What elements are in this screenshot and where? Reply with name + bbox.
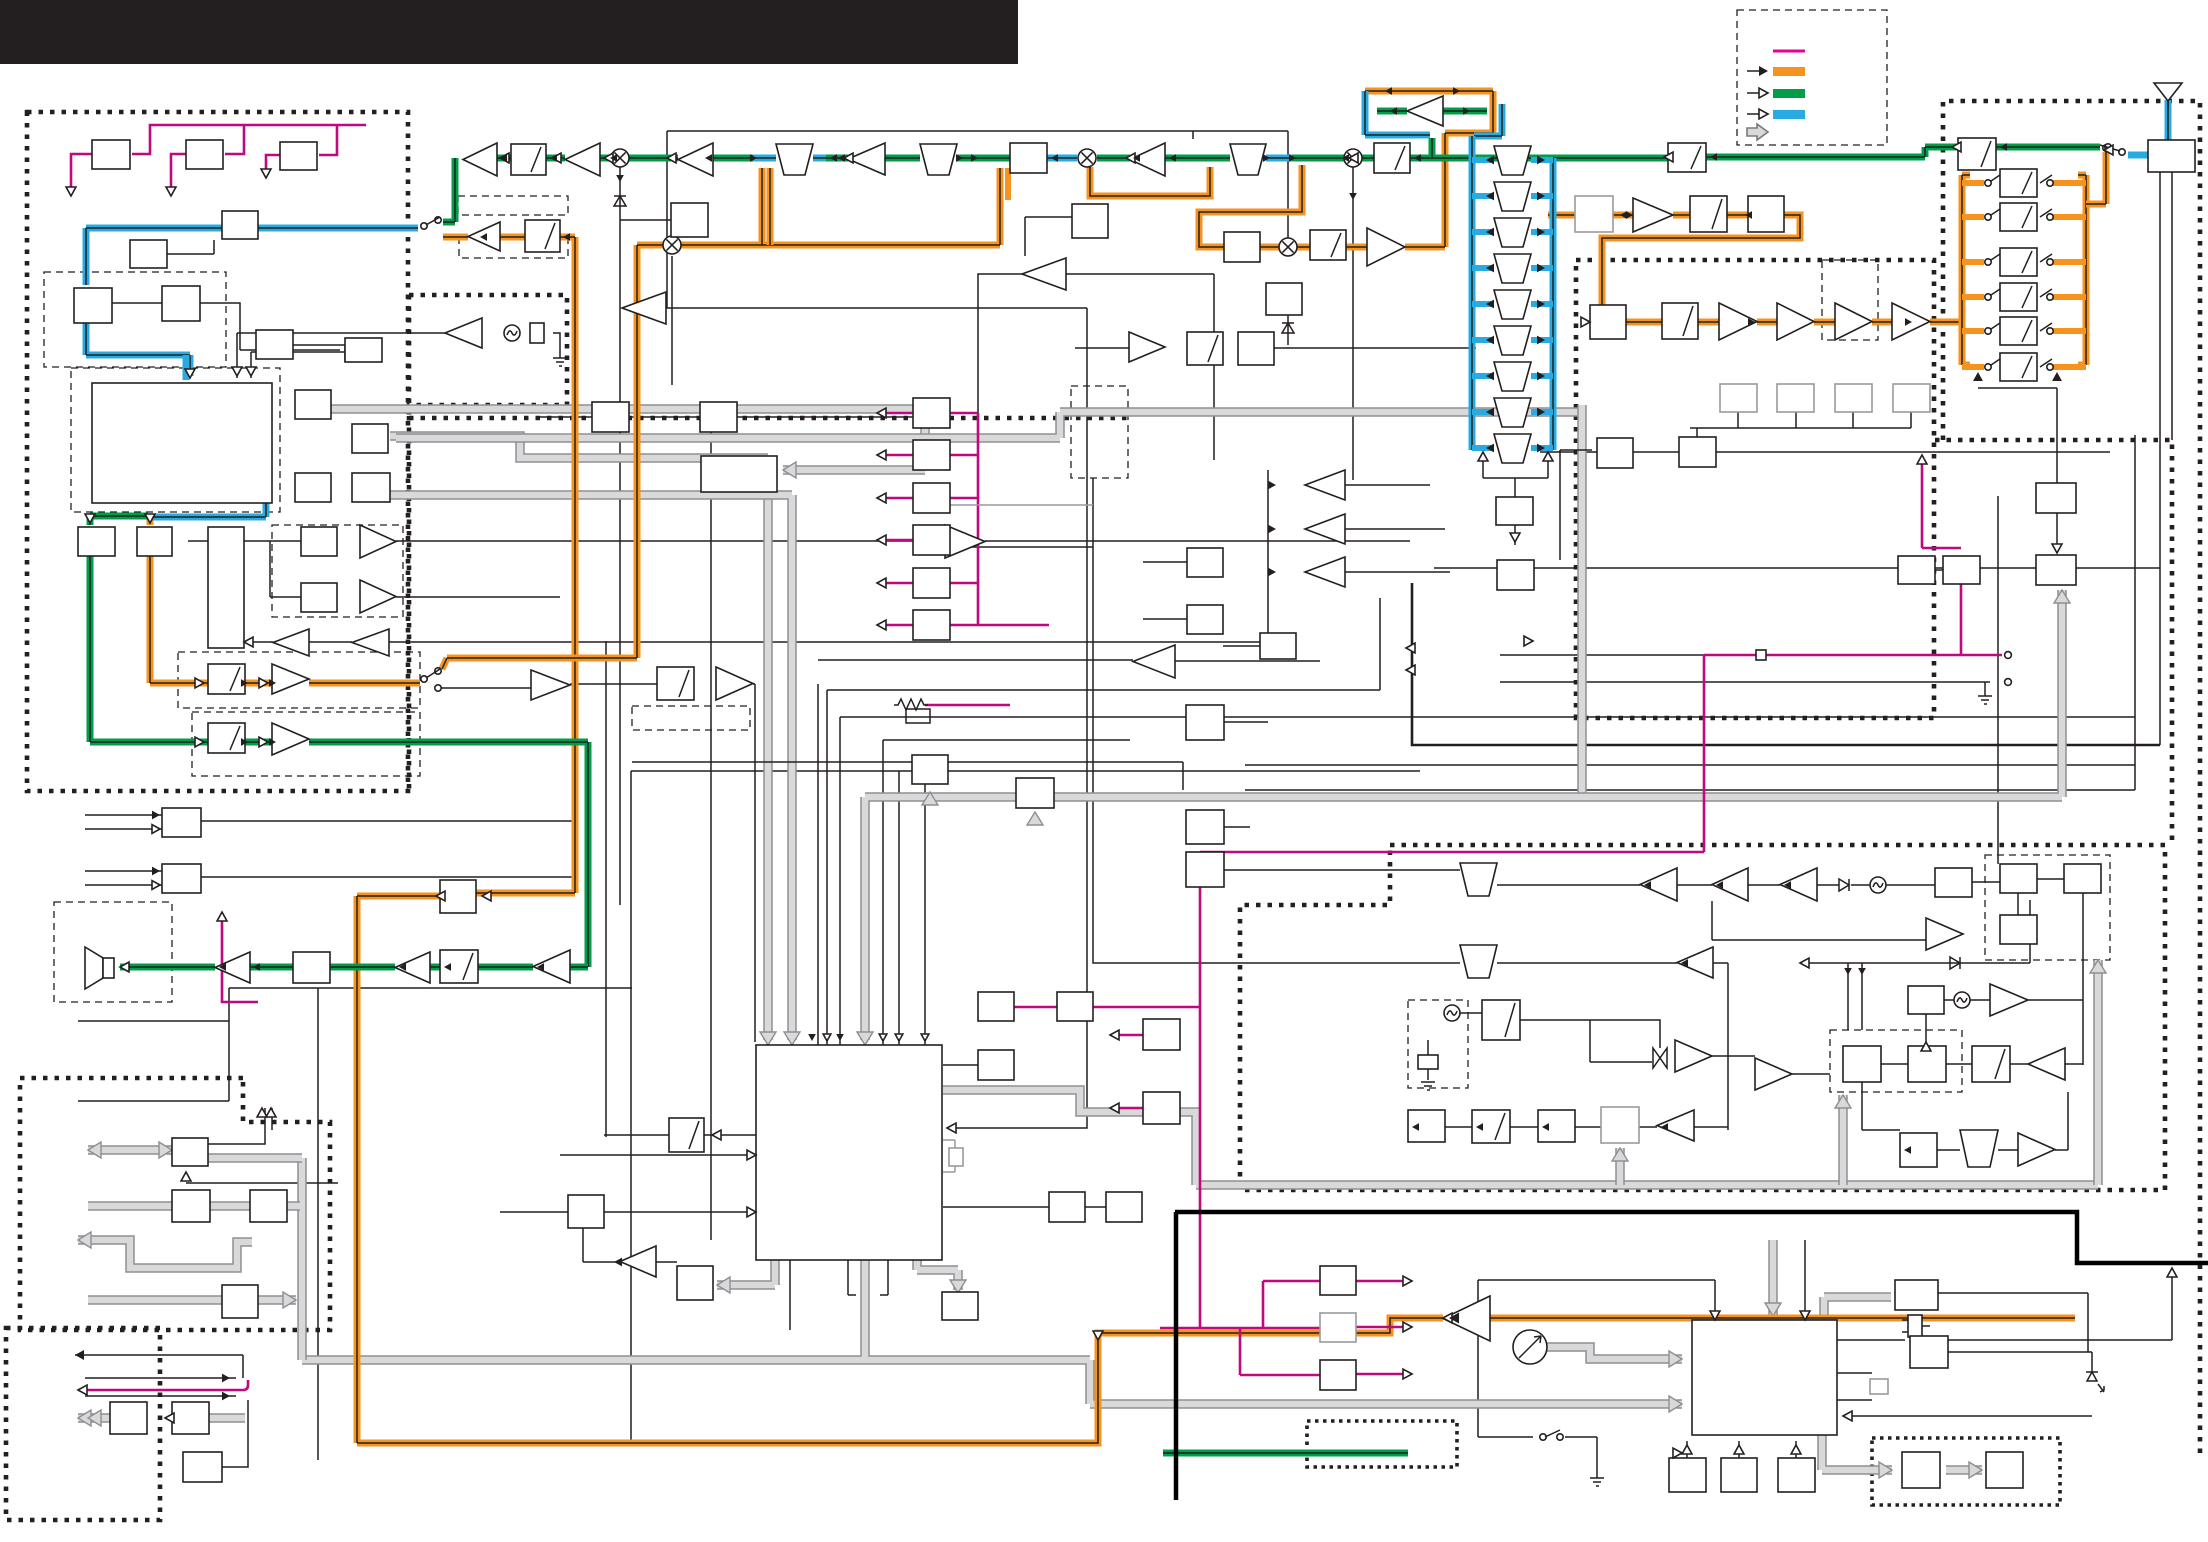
arrow xyxy=(1905,318,1912,326)
amp xyxy=(1892,303,1930,340)
title banner xyxy=(0,0,1018,64)
box xyxy=(1669,1458,1706,1492)
orange stub xyxy=(2053,180,2086,186)
wire xyxy=(2082,893,2084,1065)
green main xyxy=(1097,138,1668,158)
legend blue bar xyxy=(1773,110,1805,119)
bus arrow xyxy=(78,1410,91,1426)
level box xyxy=(1893,384,1930,412)
arrow xyxy=(1800,958,1809,968)
wire xyxy=(317,988,319,1460)
detector box xyxy=(511,144,546,175)
orange wire xyxy=(681,168,1000,245)
arrow xyxy=(1581,317,1590,327)
wire xyxy=(222,1400,248,1467)
bus out xyxy=(88,1145,172,1155)
vco box xyxy=(1482,1000,1520,1040)
amp xyxy=(716,667,753,700)
arrow xyxy=(241,738,248,746)
led xyxy=(2086,1372,2104,1392)
diode xyxy=(614,196,626,206)
bus xyxy=(1577,405,1587,797)
wire xyxy=(818,660,1133,1045)
wire xyxy=(1978,388,2057,553)
if filter xyxy=(1494,326,1531,355)
arrow xyxy=(823,1034,831,1041)
magenta wire xyxy=(1704,459,2002,655)
box xyxy=(2036,483,2076,513)
bus arrow xyxy=(784,1032,800,1045)
arrow xyxy=(500,154,507,162)
arrow xyxy=(480,233,487,241)
orange stub xyxy=(2053,364,2086,370)
arrow xyxy=(166,187,176,196)
arrow xyxy=(1858,968,1866,975)
wire xyxy=(1565,1437,1597,1478)
wire xyxy=(1497,962,1728,964)
tuner pack dashed box xyxy=(44,272,226,367)
arrow xyxy=(1268,525,1276,534)
wire xyxy=(1926,1000,2083,1046)
blue stub xyxy=(1472,229,1494,235)
if block xyxy=(701,456,777,492)
arrow xyxy=(399,963,406,971)
bus to ic xyxy=(390,495,792,1040)
mixer xyxy=(1078,149,1096,167)
wire xyxy=(789,1260,791,1330)
level box xyxy=(1777,384,1814,412)
arrow xyxy=(195,737,204,747)
tuner dotted box xyxy=(1240,845,2165,1190)
reg box xyxy=(1320,1360,1356,1390)
bus xyxy=(1946,1465,1982,1475)
contact xyxy=(2047,180,2053,186)
arrow xyxy=(1542,1123,1549,1131)
att box xyxy=(2000,283,2037,311)
box xyxy=(256,330,293,359)
box xyxy=(1935,868,1972,897)
green out dotted box xyxy=(1307,1421,1457,1467)
arrow xyxy=(1904,1146,1911,1154)
dashed box xyxy=(632,706,750,730)
box xyxy=(2036,555,2076,585)
blue stub xyxy=(1472,409,1494,415)
box xyxy=(1049,1192,1085,1222)
switch lever xyxy=(2100,145,2120,151)
gray wire xyxy=(950,504,1093,506)
bus to tuner xyxy=(943,1090,2098,1185)
switch xyxy=(1988,209,2000,217)
pll dashed box xyxy=(1985,855,2110,960)
arrow xyxy=(604,153,613,163)
contact xyxy=(435,685,441,691)
varactor xyxy=(1653,1048,1667,1068)
contact xyxy=(435,668,441,674)
arrow xyxy=(1289,154,1296,162)
control wire xyxy=(881,497,913,500)
arrow xyxy=(1349,153,1358,163)
arrow xyxy=(1537,228,1545,237)
agc box xyxy=(1496,497,1533,525)
output box xyxy=(913,610,950,640)
att box xyxy=(2000,169,2037,197)
bus arrow xyxy=(159,1142,172,1158)
wire xyxy=(1143,562,1187,619)
orange stub xyxy=(1962,328,1984,334)
arrow xyxy=(921,1034,929,1041)
box xyxy=(1143,1092,1180,1124)
arrow xyxy=(1537,336,1545,345)
feedback wire xyxy=(1412,583,2160,745)
amp xyxy=(1675,1040,1712,1072)
contact xyxy=(2105,144,2111,150)
arrow xyxy=(956,154,963,162)
diode xyxy=(1282,315,1294,345)
wire xyxy=(167,240,214,254)
crystal xyxy=(1870,1379,1888,1394)
orange stub xyxy=(1962,259,1984,265)
wire xyxy=(1948,1272,2172,1340)
blue stub xyxy=(183,355,190,380)
wire xyxy=(840,568,2160,1045)
box xyxy=(250,1190,287,1222)
switch xyxy=(2040,323,2052,331)
arrow xyxy=(1390,107,1397,115)
speed sensor xyxy=(1513,1330,1547,1364)
magenta wire xyxy=(925,704,1010,707)
arrow xyxy=(1486,228,1494,237)
arrow xyxy=(1476,1123,1483,1131)
box xyxy=(1900,1133,1937,1167)
d/a box xyxy=(440,950,478,983)
orange stub xyxy=(2053,214,2086,220)
output box xyxy=(913,525,950,555)
control wire xyxy=(881,582,913,585)
arrow xyxy=(1973,372,1983,381)
box xyxy=(1497,560,1534,590)
dac dashed box xyxy=(178,652,420,708)
box xyxy=(1601,1107,1639,1143)
orange stub xyxy=(2053,259,2086,265)
wire xyxy=(1694,963,1728,1130)
arrow xyxy=(152,867,160,876)
contact xyxy=(1540,1434,1546,1440)
wire xyxy=(943,1064,978,1066)
wire xyxy=(848,1260,888,1295)
arrow xyxy=(1716,881,1723,889)
orange loop xyxy=(1090,167,1210,196)
bus arrow xyxy=(88,1142,101,1158)
box xyxy=(295,473,331,502)
bus arrow xyxy=(2054,590,2070,603)
arrow xyxy=(1537,300,1545,309)
box xyxy=(1057,992,1093,1021)
wire xyxy=(1937,1092,2068,1150)
orange stub xyxy=(2053,328,2086,334)
control wire xyxy=(881,412,913,415)
box xyxy=(352,473,390,502)
box xyxy=(1972,1046,2010,1082)
wire xyxy=(604,1134,756,1136)
box xyxy=(657,667,694,700)
if filter xyxy=(1494,290,1531,319)
arrow xyxy=(552,153,561,163)
green main xyxy=(497,155,753,162)
arrow xyxy=(152,811,160,820)
switch lever xyxy=(426,669,440,678)
arrow xyxy=(1486,336,1494,345)
arrow xyxy=(563,233,570,241)
bus arrow xyxy=(1669,1351,1682,1367)
green wire xyxy=(90,556,588,967)
box xyxy=(1721,1458,1757,1492)
bus xyxy=(208,1153,302,1163)
arrow xyxy=(1110,1030,1119,1040)
eeprom box xyxy=(978,992,1014,1021)
orange wire xyxy=(150,556,272,683)
blue wire xyxy=(1365,91,1502,136)
diode xyxy=(1950,957,1960,969)
arrow xyxy=(482,891,491,901)
filter xyxy=(920,144,957,175)
orange trunk xyxy=(357,896,2075,1443)
wire xyxy=(1881,1063,2083,1065)
audio out dotted box xyxy=(20,1078,330,1330)
control wire xyxy=(950,624,978,627)
amp xyxy=(1719,303,1757,340)
att box xyxy=(2000,203,2037,231)
control wire xyxy=(881,539,913,542)
power amp xyxy=(215,952,250,983)
wire xyxy=(2159,172,2161,745)
bus xyxy=(717,1260,775,1285)
amp xyxy=(848,143,885,175)
box xyxy=(671,203,708,237)
box xyxy=(1778,1458,1815,1492)
blue stub xyxy=(1472,301,1494,307)
magenta wire xyxy=(78,1380,248,1390)
reg box xyxy=(1320,1313,1356,1342)
wire xyxy=(293,345,345,362)
blue stub xyxy=(1472,373,1494,379)
arrow xyxy=(1748,318,1755,326)
box xyxy=(1662,303,1698,339)
contact xyxy=(2047,328,2053,334)
wire xyxy=(244,641,352,643)
switch xyxy=(2040,175,2052,183)
arrow xyxy=(244,637,253,647)
wire xyxy=(1712,901,1926,940)
arrow xyxy=(1478,452,1488,461)
arrow xyxy=(2052,372,2062,381)
arrow xyxy=(550,154,557,162)
arrow xyxy=(185,369,195,378)
blue stub xyxy=(1531,337,1553,343)
arrow xyxy=(971,154,978,162)
contact xyxy=(2047,364,2053,370)
box xyxy=(669,1118,704,1152)
orange stub xyxy=(147,517,154,525)
wire xyxy=(1843,1415,2092,1417)
arrow xyxy=(1543,452,1553,461)
arrow xyxy=(2000,143,2007,151)
blue stub xyxy=(1472,193,1494,199)
amp xyxy=(1633,198,1673,232)
arrow xyxy=(85,514,95,523)
arrow xyxy=(1661,1123,1668,1131)
switch lever xyxy=(426,217,440,225)
box xyxy=(172,1402,209,1434)
bus arrow xyxy=(2090,960,2106,973)
bus xyxy=(2093,960,2103,1185)
filter xyxy=(1230,144,1266,175)
arrow xyxy=(836,1034,844,1041)
magenta out xyxy=(1356,1281,1408,1374)
wire xyxy=(1224,722,1460,870)
amp xyxy=(1022,258,1066,290)
crystal xyxy=(530,323,544,343)
level box xyxy=(1720,384,1757,412)
orange if wire xyxy=(1260,91,1493,247)
amp xyxy=(272,723,309,755)
mixer xyxy=(1344,149,1362,167)
wire xyxy=(560,1154,756,1156)
memory box xyxy=(280,142,317,170)
standby amp xyxy=(1443,1296,1490,1341)
wire xyxy=(1352,167,1354,480)
pll box xyxy=(1908,1046,1946,1082)
arrow xyxy=(269,679,276,687)
box xyxy=(942,1292,978,1320)
mute box xyxy=(440,880,476,913)
arrow xyxy=(1537,264,1545,273)
box xyxy=(700,402,737,432)
bus xyxy=(297,1158,307,1360)
arrow xyxy=(66,187,76,196)
arrow xyxy=(266,1108,276,1117)
filter xyxy=(1960,1130,1998,1167)
arrow xyxy=(1349,193,1357,200)
arrow xyxy=(1759,66,1768,76)
bus xyxy=(331,409,925,470)
wire xyxy=(2171,172,2173,440)
box xyxy=(1943,556,1980,584)
arrow xyxy=(830,154,837,162)
arrow xyxy=(269,738,276,746)
wire xyxy=(1540,451,2110,453)
wire xyxy=(1175,660,1320,662)
amp xyxy=(1130,143,1165,176)
blue ladder spine xyxy=(1472,136,1553,450)
control wire xyxy=(950,412,978,415)
wire xyxy=(950,546,1093,548)
dac box xyxy=(137,527,172,556)
am amp xyxy=(1677,947,1713,978)
wire xyxy=(244,541,301,597)
contact xyxy=(1985,214,1991,220)
arrow xyxy=(1917,455,1927,464)
arrow xyxy=(1486,372,1494,381)
arrow xyxy=(747,1207,756,1217)
box xyxy=(1010,143,1047,173)
bus return xyxy=(865,590,2062,1040)
box xyxy=(1575,196,1613,232)
bus arrow xyxy=(283,1292,296,1308)
arrow xyxy=(1664,152,1673,162)
box xyxy=(1898,556,1935,584)
contact xyxy=(1985,180,1991,186)
arrow xyxy=(614,1258,622,1267)
wire xyxy=(200,820,575,822)
switch xyxy=(2040,254,2052,262)
bus xyxy=(1838,1095,1848,1185)
box xyxy=(2064,864,2101,893)
bus to mcu xyxy=(302,1260,1682,1404)
contact xyxy=(2047,294,2053,300)
arrow xyxy=(1537,372,1545,381)
legend box xyxy=(1737,10,1887,145)
box xyxy=(1597,438,1633,468)
wire xyxy=(1804,1240,1806,1320)
orange loop xyxy=(442,245,663,669)
bus xyxy=(1768,1240,1778,1316)
wire xyxy=(396,596,560,598)
wire xyxy=(1268,470,1450,642)
arrow xyxy=(1268,481,1276,490)
bus xyxy=(78,1413,245,1423)
center dotted box xyxy=(1576,260,1934,718)
arrow xyxy=(1673,1448,1682,1458)
arrow xyxy=(877,493,886,503)
dac box xyxy=(78,527,115,556)
arrow xyxy=(1681,959,1688,967)
dashed box xyxy=(458,196,568,215)
wire xyxy=(188,540,208,542)
arrow xyxy=(1510,533,1520,542)
am amp xyxy=(468,222,500,251)
orange wire xyxy=(1199,165,1302,247)
arrow xyxy=(222,1392,230,1401)
arrow xyxy=(1843,1411,1852,1421)
am box xyxy=(525,220,560,252)
switch xyxy=(1988,323,2000,331)
panel border xyxy=(1174,1212,1179,1500)
speaker xyxy=(85,947,103,989)
arrow xyxy=(1784,881,1791,889)
amp xyxy=(395,952,430,983)
blue wire xyxy=(86,228,418,376)
system control ic xyxy=(756,1045,942,1260)
mem box xyxy=(1016,778,1054,808)
wire xyxy=(2017,893,2019,915)
box xyxy=(1895,1280,1938,1310)
bus arrow xyxy=(1612,1148,1628,1161)
box xyxy=(1748,196,1784,232)
legend green bar xyxy=(1773,89,1805,98)
arrow xyxy=(259,678,268,688)
wire xyxy=(78,988,229,1101)
diode xyxy=(1839,879,1849,891)
arrow xyxy=(181,1172,191,1181)
rf amp xyxy=(1780,868,1817,901)
blue stub xyxy=(1531,193,1553,199)
output box xyxy=(913,398,950,428)
fm filter xyxy=(1460,863,1497,896)
antenna switch box xyxy=(222,211,258,239)
agc box xyxy=(912,755,948,784)
box xyxy=(110,1402,147,1434)
amp xyxy=(1367,228,1405,266)
